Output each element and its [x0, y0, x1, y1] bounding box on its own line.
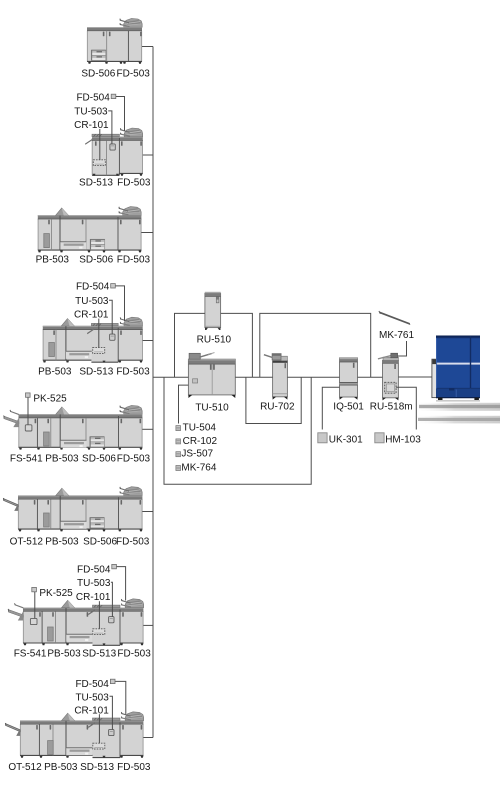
icon UK-301	[318, 433, 327, 443]
icon row2 FD-504	[111, 94, 116, 98]
wire MK-761 to RU-518m	[398, 341, 407, 356]
wire RU-518m to printer	[398, 376, 432, 378]
unit row5 PB-503 tent	[56, 407, 69, 414]
svg-text:RU-702: RU-702	[260, 401, 295, 412]
svg-text:OT-512: OT-512	[10, 537, 44, 548]
unit row3 PB-503 tent	[56, 208, 69, 215]
svg-text:FS-541: FS-541	[10, 453, 43, 464]
wire row4 FD-504 line	[116, 286, 125, 321]
svg-text:TU-504: TU-504	[183, 423, 217, 434]
unit row2 TU-503 square	[110, 144, 115, 150]
unit RU-702	[264, 354, 288, 400]
label row1	[81, 68, 150, 79]
svg-text:FD-503: FD-503	[116, 537, 150, 548]
unit row8 TU-503 square	[109, 729, 114, 735]
svg-text:PB-503: PB-503	[44, 762, 78, 773]
svg-text:FS-541: FS-541	[14, 648, 47, 659]
svg-text:CR-101: CR-101	[74, 706, 109, 717]
wire row4 CR-101 line	[98, 319, 100, 348]
unit row5 FS-541 stacker trays	[10, 411, 19, 415]
unit row1 FD-503 top assembly	[120, 18, 143, 27]
icon HM-103	[375, 433, 384, 443]
icon row7 PK-525	[32, 587, 37, 591]
unit row6 OT-512/PB-503/SD-506/FD-503 body	[18, 492, 142, 531]
unit row3 FD-503 top assembly	[119, 207, 142, 216]
unit row8 FD-503 top assembly	[121, 712, 144, 721]
wire stub row1	[142, 46, 153, 48]
svg-text:RU-518m: RU-518m	[370, 402, 413, 413]
svg-text:FD-504: FD-504	[75, 679, 109, 690]
wire stub row2	[143, 154, 153, 156]
svg-text:PK-525: PK-525	[33, 394, 67, 405]
unit row8 SD-513 left tray	[88, 722, 95, 728]
unit row2 SD-513 left tray	[85, 139, 92, 145]
svg-text:SD-513: SD-513	[79, 178, 113, 189]
svg-text:FD-504: FD-504	[77, 564, 111, 575]
svg-text:TU-503: TU-503	[77, 578, 111, 589]
wire row2 CR-101 line	[99, 129, 101, 160]
wire RU-510 loop left	[175, 313, 205, 377]
svg-text:FD-504: FD-504	[76, 281, 110, 292]
svg-text:SD-506: SD-506	[83, 537, 117, 548]
unit row2 FD-503 top assembly	[120, 128, 143, 137]
list JS-507	[176, 452, 181, 457]
svg-text:MK-761: MK-761	[379, 330, 414, 341]
svg-text:IQ-501: IQ-501	[333, 402, 364, 413]
svg-text:CR-101: CR-101	[74, 120, 109, 131]
unit row4 PB-503/SD-513/FD-503 body	[43, 323, 143, 363]
wire row2 FD-504 line	[116, 97, 125, 132]
svg-text:FD-503: FD-503	[117, 648, 151, 659]
wire row4 TU-503 line	[109, 300, 112, 334]
unit row5 FD-503 top assembly	[120, 405, 143, 414]
wire trunk vertical	[152, 47, 154, 738]
label row6	[10, 537, 150, 548]
wire stub row8	[143, 737, 153, 739]
svg-text:CR-101: CR-101	[74, 310, 109, 321]
icon row8 FD-504	[110, 679, 115, 683]
unit row7 PB-503 tent	[62, 600, 75, 607]
svg-text:OT-512: OT-512	[8, 762, 42, 773]
unit row7 SD-513 left tray	[88, 609, 95, 615]
option labels row2 FD-504 TU-503 CR-101	[74, 92, 110, 131]
wire TU-510 to options list	[179, 385, 189, 423]
wire bypass loop under RU-702	[246, 377, 301, 423]
label row3	[36, 255, 151, 266]
option labels row7	[76, 564, 111, 603]
svg-text:PB-503: PB-503	[38, 366, 72, 377]
unit row3 PB-503/SD-506/FD-503 body	[38, 212, 142, 252]
list CR-102	[176, 439, 181, 444]
label row5	[10, 453, 151, 464]
wire trunk to TU-510	[153, 376, 188, 378]
unit row4 TU-503 square	[110, 334, 115, 340]
icon row7 FD-504	[112, 564, 117, 568]
option labels row8	[74, 679, 109, 717]
unit TU-510	[188, 353, 235, 398]
unit row8 CR-101 dashed box	[93, 743, 105, 749]
unit IQ-501	[340, 358, 358, 400]
unit row5 FS-541/PB-503/SD-506/FD-503 body	[19, 411, 143, 450]
svg-text:FD-503: FD-503	[117, 762, 151, 773]
svg-text:SD-513: SD-513	[79, 366, 113, 377]
unit row8 OT-512 tray	[6, 724, 21, 732]
svg-text:CR-102: CR-102	[183, 436, 218, 447]
unit row7 FS-541/PB-503/SD-513/FD-503 body	[23, 604, 143, 645]
svg-text:PB-503: PB-503	[45, 537, 79, 548]
svg-text:SD-506: SD-506	[81, 68, 115, 79]
wire RU-702 to IQ-501	[287, 376, 339, 378]
wire row7 CR-101 line	[98, 601, 100, 629]
unit row2 SD-513 body	[92, 134, 143, 176]
unit row1 SD-506 body	[87, 27, 142, 64]
unit row5 PK-525 square	[25, 425, 32, 431]
unit row8 PB-503 tent	[62, 713, 75, 720]
svg-text:FD-504: FD-504	[76, 92, 110, 103]
svg-text:FD-503: FD-503	[117, 68, 151, 79]
svg-text:PB-503: PB-503	[45, 453, 79, 464]
unit row4 FD-503 top assembly	[120, 317, 143, 326]
icon row4 FD-504	[111, 284, 116, 288]
wire row2 TU-503 line	[108, 111, 112, 144]
svg-text:FD-503: FD-503	[116, 366, 150, 377]
wire row7 PK-525 line	[34, 592, 36, 618]
unit row7 FD-503 top assembly	[121, 599, 144, 608]
unit row7 FS-541 stacker trays	[15, 604, 24, 608]
unit MK-761 bar	[379, 311, 410, 325]
unit row2 CR-101 dashed box	[93, 160, 105, 166]
wire row7 TU-503 line	[111, 582, 113, 617]
svg-text:JS-507: JS-507	[181, 449, 213, 460]
svg-text:PK-525: PK-525	[39, 588, 73, 599]
wire row5 PK-525 line	[27, 398, 29, 425]
label row7	[14, 648, 152, 659]
wire stub row6	[142, 511, 153, 513]
svg-text:MK-764: MK-764	[181, 463, 216, 474]
wire IQ-501 to RU-518m	[358, 376, 383, 378]
option labels row4	[74, 281, 110, 320]
wire row8 CR-101 line	[98, 714, 100, 743]
unit row8 OT-512/PB-503/SD-513/FD-503 body	[20, 717, 143, 758]
svg-text:FD-503: FD-503	[117, 178, 151, 189]
unit RU-510	[205, 292, 221, 330]
unit row7 PK-525 square	[30, 618, 37, 624]
unit row4 PB-503 tent	[61, 319, 74, 326]
unit row6 PB-503 tent	[56, 488, 69, 495]
svg-text:SD-506: SD-506	[79, 255, 113, 266]
unit row7 CR-101 dashed box	[93, 629, 105, 635]
wire TU-510 to RU-702	[235, 376, 272, 378]
svg-text:SD-513: SD-513	[82, 648, 116, 659]
list TU-504	[176, 426, 181, 431]
svg-text:RU-510: RU-510	[197, 334, 232, 345]
unit row4 CR-101 dashed box	[93, 348, 105, 354]
svg-text:SD-513: SD-513	[80, 762, 114, 773]
wire stub row3	[141, 232, 153, 234]
svg-text:FD-503: FD-503	[117, 255, 151, 266]
list MK-764	[176, 466, 181, 471]
label row2	[79, 178, 151, 189]
svg-text:FD-503: FD-503	[117, 453, 151, 464]
svg-text:PB-503: PB-503	[47, 648, 81, 659]
svg-text:HM-103: HM-103	[385, 434, 421, 445]
wire bottom loop trunk to IQ junction	[164, 377, 311, 484]
unit main engine (blue printer)	[432, 336, 480, 402]
svg-text:TU-503: TU-503	[74, 107, 108, 118]
wire IQ-501 to UK-301	[322, 387, 339, 429]
svg-text:TU-503: TU-503	[75, 693, 109, 704]
wire RU-518m to HM-103	[396, 387, 416, 429]
wire row8 TU-503 line	[110, 696, 113, 730]
label row8	[8, 762, 151, 773]
svg-text:UK-301: UK-301	[329, 434, 363, 445]
unit row4 SD-513 left tray	[87, 328, 94, 334]
svg-text:SD-506: SD-506	[82, 453, 116, 464]
svg-text:TU-503: TU-503	[75, 296, 109, 307]
icon row5 PK-525	[26, 393, 31, 397]
svg-text:TU-510: TU-510	[195, 402, 229, 413]
unit RU-518m	[378, 353, 399, 400]
wire row7 FD-504 line	[117, 567, 126, 601]
unit row7 TU-503 square	[109, 617, 114, 623]
wire long top line	[260, 313, 371, 377]
wire RU-510 loop right	[221, 313, 253, 377]
unit row6 OT-512 tray	[4, 499, 19, 507]
unit row6 FD-503 top assembly	[120, 487, 143, 496]
unit RU-518m HM-103 dashed box	[385, 382, 396, 393]
svg-text:CR-101: CR-101	[76, 592, 111, 603]
wire stub row5	[142, 428, 153, 430]
label row4	[38, 366, 150, 377]
wire row8 FD-504 line	[115, 681, 126, 714]
svg-text:PB-503: PB-503	[36, 255, 70, 266]
wire stub row4	[143, 340, 153, 342]
wire stub row7	[143, 624, 153, 626]
